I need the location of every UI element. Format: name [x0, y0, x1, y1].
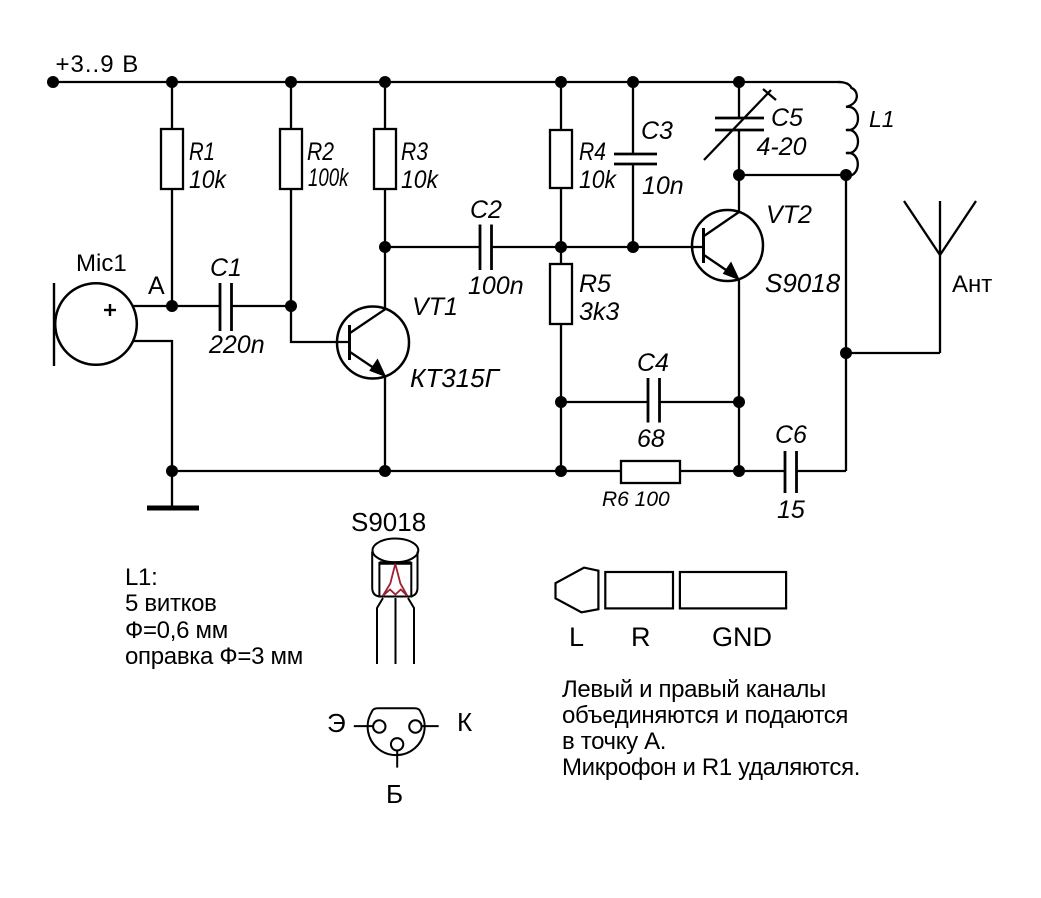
node rail C5	[733, 76, 745, 88]
wire top power rail	[53, 81, 841, 83]
svg-text:L1:: L1:	[125, 564, 157, 591]
svg-text:220n: 220n	[208, 331, 265, 359]
wire R4 column top	[560, 82, 562, 130]
svg-text:R5: R5	[579, 270, 611, 298]
svg-text:100k: 100k	[308, 164, 350, 192]
node rail C3	[627, 76, 639, 88]
svg-text:Левый и правый каналы: Левый и правый каналы	[562, 676, 826, 703]
svg-text:R: R	[631, 622, 651, 652]
jack tip	[556, 568, 599, 613]
svg-text:КТ315Г: КТ315Г	[410, 363, 501, 393]
node R6-C6-VT2e	[733, 465, 745, 477]
wire R3 column top	[384, 82, 386, 129]
resistor R3	[374, 129, 396, 189]
wire mic output to node A	[132, 305, 172, 307]
wire right column L1 bottom to C6 corner	[845, 175, 847, 471]
package dome	[372, 539, 418, 597]
pin collector circle	[409, 720, 421, 732]
wire R5 top	[560, 247, 562, 264]
svg-text:C4: C4	[637, 349, 669, 377]
ground	[171, 471, 173, 506]
node antenna tap	[840, 347, 852, 359]
wire R5 bottom	[560, 324, 562, 471]
jack ring R	[605, 572, 673, 608]
svg-text:К: К	[457, 707, 472, 737]
wire bottom ground rail	[172, 470, 621, 472]
wire R4 bottom	[560, 188, 562, 247]
wire VT2 collector	[738, 175, 740, 213]
svg-text:3k3: 3k3	[579, 298, 619, 326]
wire VT2 emitter down	[738, 278, 740, 471]
package legs	[377, 598, 414, 664]
node rail R2	[285, 76, 297, 88]
svg-text:C6: C6	[775, 421, 807, 449]
svg-text:5 витков: 5 витков	[125, 590, 217, 617]
audio jack drawing	[556, 568, 787, 652]
svg-text:Ф=0,6 мм: Ф=0,6 мм	[125, 617, 228, 644]
node A junction	[166, 300, 178, 312]
node VT1 emitter ground	[379, 465, 391, 477]
wire C4 row right	[660, 401, 740, 403]
svg-text:10k: 10k	[189, 166, 227, 194]
transistor pinout bottom view	[327, 707, 472, 809]
wire R2 column top	[290, 82, 292, 129]
capacitor C2	[479, 225, 482, 271]
svg-text:VT1: VT1	[412, 293, 458, 321]
svg-text:Mic1: Mic1	[76, 250, 127, 277]
capacitor C4	[647, 378, 650, 423]
node C3 bottom	[627, 241, 639, 253]
svg-text:Микрофон и R1 удаляются.: Микрофон и R1 удаляются.	[562, 754, 860, 781]
svg-text:Э: Э	[327, 708, 346, 738]
node L1 bottom	[840, 169, 852, 181]
pin base lead	[396, 751, 398, 768]
node C4-VT2 emitter	[733, 396, 745, 408]
svg-text:Б: Б	[386, 779, 403, 809]
node C5-VT2 collector	[733, 169, 745, 181]
svg-text:R1: R1	[189, 138, 215, 166]
package red arrow	[383, 564, 408, 596]
wire C5 to L1 bottom	[739, 174, 846, 176]
wire R2 bottom	[290, 189, 292, 306]
wire C3 column top	[632, 82, 634, 154]
svg-text:10k: 10k	[579, 166, 617, 194]
node rail R3	[379, 76, 391, 88]
svg-text:S9018: S9018	[351, 507, 426, 537]
S9018 package drawing	[351, 507, 426, 664]
node ground-mic	[166, 465, 178, 477]
svg-text:C5: C5	[771, 104, 803, 132]
node C1-R2 junction	[285, 300, 297, 312]
pin base circle	[391, 738, 403, 750]
svg-text:C1: C1	[210, 254, 242, 282]
svg-text:+3..9 В: +3..9 В	[56, 51, 140, 78]
capacitor C3	[614, 153, 657, 156]
svg-text:4-20: 4-20	[757, 133, 807, 161]
svg-text:оправка Ф=3 мм: оправка Ф=3 мм	[125, 643, 303, 670]
wire C5 bottom	[738, 130, 740, 175]
wire R1 bottom to node A	[171, 189, 173, 306]
wire R6 to C6	[680, 470, 785, 472]
wire C5 column top	[738, 82, 740, 118]
wire C4 row left	[561, 401, 648, 403]
wire C6 right to corner	[797, 470, 847, 472]
resistor R6	[621, 461, 680, 483]
node R5 bottom rail	[555, 465, 567, 477]
wire R1 column top	[171, 82, 173, 129]
resistor R1	[161, 129, 183, 189]
svg-text:R2: R2	[307, 138, 334, 166]
resistor R2	[280, 129, 302, 189]
capacitor C6	[784, 451, 787, 493]
svg-text:C3: C3	[641, 117, 673, 145]
transistor VT2	[692, 210, 763, 281]
node rail R4	[555, 76, 567, 88]
svg-text:R3: R3	[401, 138, 428, 166]
wire node A to C1	[172, 305, 220, 307]
svg-text:15: 15	[777, 496, 805, 524]
node R5-C4	[555, 396, 567, 408]
svg-text:10n: 10n	[642, 172, 684, 200]
wire C2 right to VT2 base	[492, 246, 704, 248]
antenna	[939, 201, 941, 353]
wire to VT1 base	[291, 306, 350, 342]
node rail R1	[166, 76, 178, 88]
node R4-R5	[555, 241, 567, 253]
wire C3 bottom	[632, 164, 634, 247]
svg-text:S9018: S9018	[765, 268, 841, 298]
wire antenna feed	[846, 352, 940, 354]
capacitor C1	[219, 283, 222, 331]
svg-text:Ант: Ант	[952, 271, 992, 298]
svg-text:объединяются и подаются: объединяются и подаются	[562, 702, 848, 729]
wire VT1 collector up	[384, 247, 386, 309]
pin emitter lead	[354, 725, 373, 727]
svg-text:L: L	[569, 622, 584, 652]
svg-text:R6 100: R6 100	[602, 488, 670, 511]
pin collector lead	[422, 725, 439, 727]
capacitor C5 trimmer	[715, 117, 764, 120]
microphone Mic1	[55, 283, 137, 365]
svg-text:GND: GND	[712, 622, 772, 652]
resistor R5	[550, 264, 572, 324]
wire mid rail from VT1 collector to VT2 base	[385, 246, 480, 248]
svg-text:в точку А.: в точку А.	[562, 728, 666, 755]
wire VT1 emitter down	[384, 375, 386, 471]
svg-text:A: A	[148, 272, 165, 300]
svg-text:L1: L1	[869, 106, 895, 132]
svg-text:10k: 10k	[401, 166, 439, 194]
wire mic bottom return	[133, 341, 172, 471]
svg-text:100n: 100n	[468, 272, 524, 300]
node supply left dot	[47, 76, 59, 88]
svg-text:68: 68	[637, 425, 665, 453]
wire C1 to R2 node	[232, 305, 292, 307]
pin emitter circle	[373, 720, 385, 732]
jack sleeve GND	[680, 572, 786, 608]
node VT1 collector	[379, 241, 391, 253]
inductor L1	[838, 82, 858, 176]
svg-text:C2: C2	[470, 196, 502, 224]
pinout body	[368, 708, 425, 755]
svg-text:VT2: VT2	[766, 201, 812, 229]
transistor VT1	[337, 307, 409, 379]
resistor R4	[550, 130, 572, 188]
svg-text:R4: R4	[579, 138, 606, 166]
wire R3 bottom	[384, 189, 386, 247]
